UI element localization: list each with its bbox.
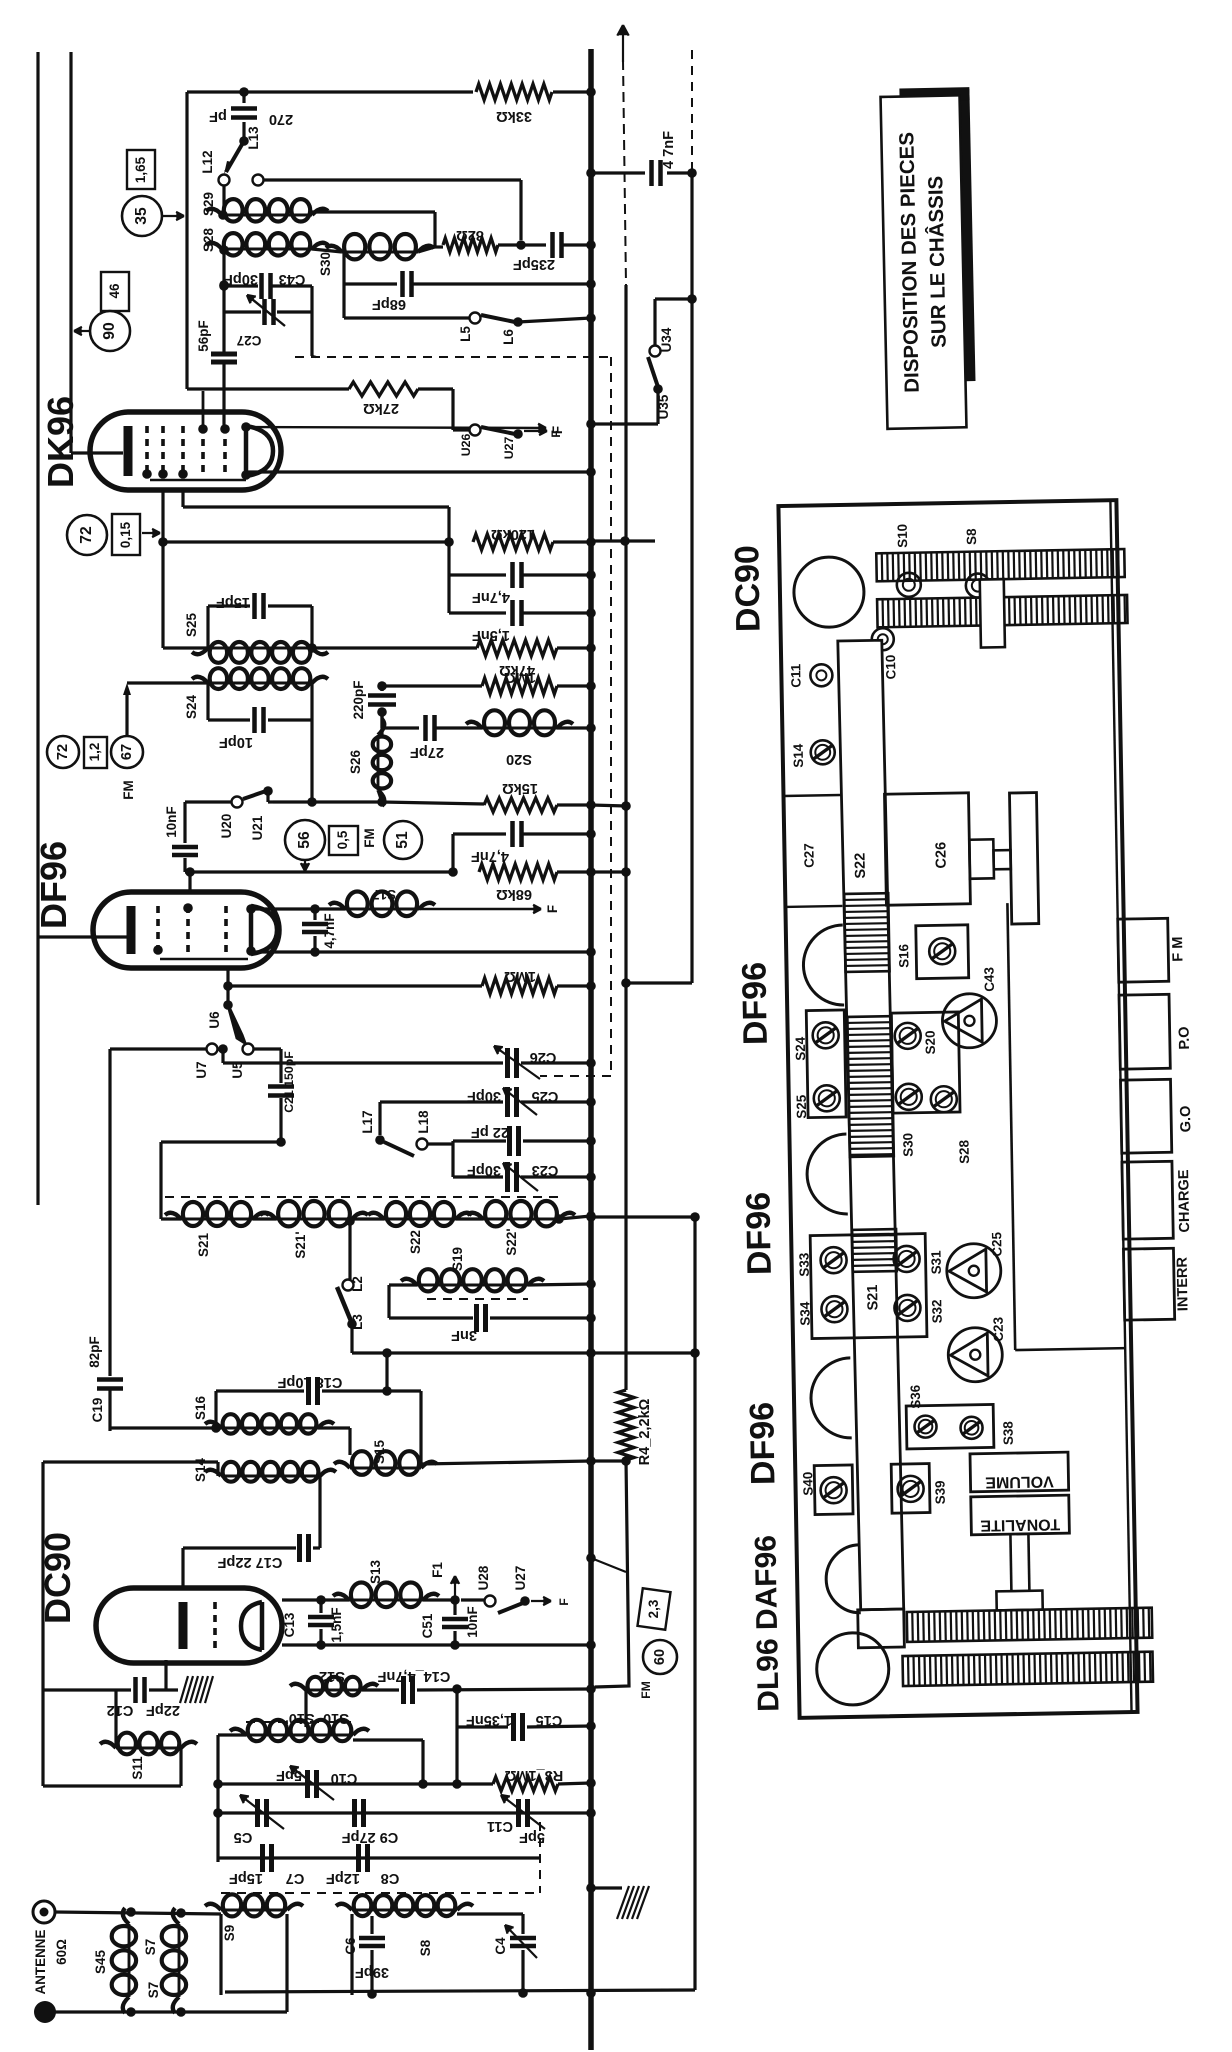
tube DF96 half (chassis 2) [806,1134,847,1215]
knob stem C26 [969,839,994,878]
box C26 [884,793,970,905]
wire left supply rail 2 [69,52,72,453]
svg-text:C11: C11 [788,663,803,688]
svg-text:R3_1MΩ: R3_1MΩ [504,1767,563,1783]
wire S28 left down [222,250,225,285]
svg-text:S32: S32 [929,1299,944,1323]
svg-text:S13: S13 [368,1560,383,1584]
tab PO [1119,994,1170,1069]
svg-text:S9: S9 [222,1925,237,1941]
divider line 1 [783,794,840,797]
terminal 35 [122,196,162,236]
coil S28 [222,248,312,251]
gang coupler [980,579,1005,647]
svg-text:S7: S7 [143,1939,158,1955]
dashed gang-link line [295,356,611,358]
coil S25 with 15pF [163,646,208,649]
resistor R4 2,2k [618,1390,634,1460]
svg-text:S21: S21 [196,1233,211,1257]
wire DC90 plate row [282,1598,321,1601]
resistor 15k [382,802,484,804]
svg-text:22 pF: 22 pF [471,1124,509,1140]
wire det row [273,800,382,803]
svg-text:VOLUME: VOLUME [985,1472,1054,1490]
screw box S20 S30 S28 [891,1012,960,1113]
svg-text:60Ω: 60Ω [54,1939,69,1965]
svg-text:1,65: 1,65 [133,156,148,183]
wire DF96 filament left [38,935,129,938]
svg-text:C19: C19 [90,1398,105,1423]
wire DF96 plate row [251,907,345,910]
svg-text:120kΩ: 120kΩ [491,526,535,542]
tube DC90 [96,1588,282,1663]
svg-text:235pF: 235pF [513,256,555,272]
svg-text:C17 22pF: C17 22pF [218,1554,283,1570]
resistor R3 1M [493,1777,558,1791]
svg-text:S22: S22 [408,1230,423,1254]
trimmer C5 [255,1799,260,1827]
capacitor 235pF [498,243,546,246]
svg-text:C10: C10 [883,655,898,680]
svg-text:DF96: DF96 [743,1402,782,1486]
svg-text:L12: L12 [200,150,215,173]
arrow 35 to box edge [163,215,184,217]
capacitor C8 12pF [356,1844,361,1872]
svg-text:C23: C23 [991,1317,1006,1342]
wire S24 left to FM terminals [127,681,208,684]
svg-text:G.O: G.O [1178,1106,1194,1133]
trimmer C11 5pF [516,1799,521,1827]
svg-text:C12: C12 [107,1702,134,1718]
svg-text:S29: S29 [201,192,216,216]
svg-text:DF96: DF96 [739,1192,778,1276]
svg-text:5pF: 5pF [519,1829,545,1845]
screw S40 [814,1465,853,1515]
wire AVC line (mid vertical) [624,285,627,1390]
svg-text:INTERR: INTERR [1175,1256,1192,1311]
coil S22b [456,1217,483,1220]
svg-text:S16: S16 [896,944,911,968]
wire C26 row [221,1049,224,1063]
svg-text:S28: S28 [957,1139,972,1164]
chassis outline [778,500,1137,1718]
svg-text:U28: U28 [476,1565,491,1590]
wire U34 U35 switch net [655,297,692,300]
capacitor C13 1,5nF [319,1600,322,1613]
switch contact L14 [253,175,264,186]
wire trimmer row [218,1811,591,1814]
svg-text:46: 46 [107,284,122,299]
svg-text:S24: S24 [793,1036,808,1061]
svg-text:S19: S19 [450,1247,465,1271]
dashed line over coil row [165,1196,559,1198]
resistor 68k [479,864,557,880]
svg-text:S10: S10 [895,524,910,548]
svg-text:4,7nF: 4,7nF [472,589,510,605]
svg-text:F: F [549,430,563,438]
svg-text:U7: U7 [194,1061,209,1078]
box TONALITE [971,1495,1070,1535]
svg-text:82Ω: 82Ω [456,227,484,243]
wire DK96 g1 down [161,490,164,648]
title box [881,95,967,429]
tab FM [1118,918,1169,982]
resistor 27k with switch U26 U27 [187,387,349,390]
coil S17 [345,908,419,911]
svg-text:F: F [557,1598,571,1606]
arrow 90 to left rail [74,330,89,332]
svg-text:S14: S14 [193,1458,208,1482]
svg-text:S8: S8 [418,1939,433,1956]
svg-text:15pF: 15pF [229,1870,263,1886]
svg-text:S36: S36 [908,1385,923,1409]
svg-text:S24: S24 [184,695,199,719]
svg-text:DC90: DC90 [37,1532,78,1624]
wire DF96 pin row to bus [251,950,591,953]
volume shaft [1009,1534,1013,1591]
svg-text:72: 72 [78,526,95,544]
coil S15 [318,1426,350,1429]
ground symbol [617,1886,629,1919]
capacitor C9 27pF [352,1799,357,1827]
svg-text:C26: C26 [933,842,949,869]
svg-text:72: 72 [55,744,71,760]
svg-text:0,5: 0,5 [335,830,350,849]
terminal 67 [111,736,143,768]
svg-text:270: 270 [269,111,293,127]
svg-text:S14: S14 [791,743,806,768]
wire below R4 [595,1460,629,1687]
svg-text:C14_4,7nF: C14_4,7nF [378,1668,451,1684]
svg-text:FM: FM [362,828,377,847]
resistor 33k [476,84,552,100]
inner partition [1007,903,1015,1350]
strip hatch 2 [847,1016,893,1157]
svg-text:U21: U21 [250,815,265,840]
capacitor 4,7nF (top right) [591,171,645,174]
svg-text:L13: L13 [246,126,261,149]
capacitor C18 10pF [216,1389,304,1392]
svg-text:C26: C26 [530,1049,557,1065]
wire DK96 g2 down [181,490,184,507]
screw box S36 S38 [906,1404,994,1449]
svg-text:S15: S15 [372,1440,387,1464]
svg-text:60: 60 [652,1649,668,1665]
svg-text:C21 150pF: C21 150pF [282,1051,296,1113]
wire DF96 grid stub [188,872,191,892]
arrow F1 [454,1576,456,1600]
terminal 60 [643,1640,677,1674]
coil S29 [222,186,225,210]
coil S24 with 10pF [208,682,312,685]
svg-text:C8: C8 [381,1870,400,1886]
coil S26 [377,735,380,790]
svg-text:S20: S20 [506,751,532,767]
coil S21 [181,1218,253,1221]
dial pointer strip [838,640,904,1610]
trimmer C26 [505,1048,510,1078]
capacitor 68pF [342,252,345,318]
trimmer C23 30pF [451,1141,454,1177]
capacitor C6 39pF [370,1916,373,1934]
tube DL96 half (chassis) [826,1545,861,1614]
svg-text:U34: U34 [659,327,674,352]
svg-text:S28: S28 [201,228,216,252]
wire top rail [187,90,473,93]
svg-text:15pF: 15pF [216,594,250,610]
bottom gang bar 1 [907,1608,1152,1642]
svg-text:F1: F1 [430,1562,445,1578]
wire stub rail to AVC [626,981,692,984]
svg-text:F: F [545,905,560,913]
svg-text:0,15: 0,15 [118,521,133,548]
switch U20 U21 [185,800,231,803]
tuning gang bar 1 [876,549,1124,581]
svg-text:C15: C15 [536,1712,563,1728]
svg-text:F M: F M [1170,936,1186,961]
svg-text:CHARGE: CHARGE [1176,1169,1193,1233]
capacitor C14 4,7nF [362,1688,399,1691]
trimmer C25 30pF [380,1100,503,1103]
svg-text:S12: S12 [319,1668,345,1684]
svg-text:FM: FM [121,780,136,799]
svg-text:L5: L5 [458,326,473,342]
svg-text:S17: S17 [372,887,396,902]
capacitor 4,7nF (IF) [451,834,454,872]
svg-text:DK96: DK96 [40,396,81,488]
box 2,3 with FM 60 [591,1558,626,1572]
box 0,15 [112,514,140,555]
antenna terminal top [33,1901,55,1923]
terminal 51 [384,821,422,859]
capacitor 3nF [389,1316,473,1319]
svg-text:S22': S22' [504,1228,519,1255]
svg-text:L17: L17 [360,1110,375,1133]
terminal 72 (DK96) [67,515,107,555]
svg-text:67: 67 [119,744,135,760]
svg-text:U27: U27 [502,437,516,460]
knob C43 [942,993,997,1048]
svg-text:S25: S25 [184,613,199,637]
svg-text:10nF: 10nF [164,806,179,837]
capacitor 4,7nF [447,542,450,575]
coil S21b [253,1217,276,1220]
capacitor 27pF to S20 [380,712,383,728]
svg-text:4 7nF: 4 7nF [661,131,677,169]
switch L2 L3 [345,1216,355,1226]
svg-text:22pF: 22pF [146,1702,180,1718]
svg-text:S31: S31 [928,1250,943,1275]
coil S20 [482,727,557,730]
svg-text:33kΩ: 33kΩ [496,108,532,124]
box VOLUME [970,1452,1069,1492]
resistor 120k [473,534,553,550]
svg-text:5pF: 5pF [276,1767,302,1783]
wire filament to left rail [71,451,123,454]
bottom gang coupler [996,1591,1042,1611]
svg-text:DL96 DAF96: DL96 DAF96 [749,1535,785,1712]
dashed link to band switch [539,1822,541,1893]
screw S8 (gang) [966,573,990,597]
svg-text:C10: C10 [331,1770,358,1786]
screw S39 [891,1464,930,1514]
switch L17 L18 [375,1135,385,1145]
capacitor 220pF [380,686,383,691]
svg-text:S8: S8 [964,528,979,545]
core hatch block [180,1676,188,1703]
coil S13 [321,1598,349,1601]
svg-text:C43: C43 [982,967,997,992]
svg-text:C25: C25 [989,1231,1004,1256]
wire dash-dot line with arrow (top) [622,25,624,62]
resistor 47k [312,646,477,649]
svg-text:S10': S10' [285,1710,314,1726]
terminal 90 [90,311,130,351]
coil S19 [389,1283,417,1286]
svg-text:68pF: 68pF [372,296,406,312]
switch L12 L13 [239,136,249,146]
wire antenna return rail [54,2010,287,2013]
title box shadow [954,89,975,381]
wire S17 to F [419,908,541,910]
wire DK96 plate to F [246,427,546,428]
svg-text:C11: C11 [487,1818,513,1834]
svg-text:S34: S34 [797,1301,812,1326]
screw box S24 S25 [806,1010,846,1118]
switch L5 L6 [344,316,469,319]
svg-text:S30: S30 [900,1133,915,1157]
trimmer C10 5pF [305,1770,310,1798]
svg-text:C51: C51 [420,1613,435,1638]
switch U6 [226,968,229,1003]
coil S8 [352,1909,457,1912]
wire bus to rail stub 2 [352,1351,695,1354]
svg-text:L6: L6 [501,329,516,345]
arrow 56 down [304,861,306,871]
svg-text:1,5nF: 1,5nF [329,1607,344,1642]
wire oscillator box edge [185,92,188,389]
tube DAF96 (chassis) [816,1632,889,1705]
svg-text:S20: S20 [923,1030,938,1054]
capacitor 22pF [453,1139,506,1142]
wire antenna top [55,1912,221,1914]
wire DC90 cathode row to bus [282,1643,591,1646]
capacitor C19 82pF [97,1377,123,1382]
svg-text:30pF: 30pF [224,271,258,287]
svg-text:220pF: 220pF [351,681,366,720]
wire RF row R3 [218,1782,493,1785]
trimmer C10 (chassis) [872,628,894,650]
svg-text:4,7nF: 4,7nF [471,848,509,864]
svg-text:35: 35 [133,207,150,225]
svg-text:P.O: P.O [1177,1026,1193,1049]
wire coil row left [161,1140,281,1143]
capacitor C17 22pF [318,1476,321,1548]
svg-text:C13: C13 [282,1613,297,1638]
svg-text:L2: L2 [350,1276,365,1292]
svg-text:C7: C7 [286,1870,305,1886]
ground stub [591,1886,622,1889]
capacitor C4 (trimmer) [457,1912,523,1915]
box S16 (chassis) [916,925,969,979]
svg-text:S22: S22 [852,853,868,879]
wire S29 to 82ohm node [312,210,435,213]
svg-text:DF96: DF96 [735,962,774,1046]
svg-text:51: 51 [394,831,411,849]
trimmer C11 (chassis) [810,664,832,686]
capacitor 4,7nF (plate) [313,909,316,920]
svg-text:S30: S30 [318,252,333,276]
svg-text:56pF: 56pF [196,320,211,351]
svg-text:90: 90 [101,322,118,340]
svg-text:C9 27pF: C9 27pF [342,1829,399,1845]
svg-text:10nF: 10nF [465,1606,480,1637]
capacitor C21 150pF [268,1084,294,1089]
capacitor C51 10nF [453,1600,456,1615]
wire cap row C7 C8 [218,1856,540,1859]
svg-text:1MΩ: 1MΩ [504,669,536,685]
svg-text:S21': S21' [293,1231,308,1258]
svg-text:R4_2,2kΩ: R4_2,2kΩ [637,1398,653,1465]
trimmer C27 [224,310,261,313]
capacitor C43 30pF [224,284,258,287]
svg-text:S26: S26 [348,750,363,774]
wire DK96 pin to bus [246,470,591,473]
svg-text:SUR LE CHÂSSIS: SUR LE CHÂSSIS [923,176,951,348]
svg-text:30pF: 30pF [467,1088,501,1104]
wire right rail upper [690,173,693,983]
svg-text:S7: S7 [146,1982,161,1998]
tab CHARGE [1122,1161,1173,1239]
coil S10 [246,1721,353,1723]
svg-text:10pF: 10pF [219,734,253,750]
antenna terminal bottom [34,2001,56,2023]
box 46 [101,272,129,311]
arrow 0,15 to grid line [142,532,160,534]
divider line 2 [785,905,842,908]
capacitor C7 15pF [260,1844,265,1872]
capacitor 1,5nF [447,575,450,613]
svg-text:L18: L18 [416,1110,431,1134]
svg-text:C6: C6 [343,1937,358,1954]
tube DF96 half (chassis 1) [803,925,844,1006]
svg-text:S10: S10 [323,1710,349,1726]
tube DF96 half (chassis 3) [810,1358,851,1439]
svg-text:S39: S39 [932,1480,947,1504]
screw S10 (gang) [897,573,921,597]
wire DC90 grid to C12 [164,1660,167,1690]
strip hatch 3 [852,1229,897,1272]
capacitor C15 1,35nF [455,1689,458,1784]
svg-text:1MΩ: 1MΩ [504,968,536,984]
svg-text:39pF: 39pF [355,1964,389,1980]
svg-text:1,2: 1,2 [87,743,102,762]
svg-text:C27: C27 [801,843,816,868]
svg-text:C4: C4 [493,1937,508,1955]
tube DK96 [90,412,281,490]
svg-text:27pF: 27pF [410,744,444,760]
wire right rail (dashed top) [691,50,693,173]
knob C23 [948,1327,1003,1382]
resistor 1M (osc) [382,684,482,687]
coil S30 [312,249,342,252]
svg-text:FM: FM [639,1681,653,1699]
svg-text:27kΩ: 27kΩ [363,400,399,416]
svg-text:30pF: 30pF [467,1162,501,1178]
wire S15 row to bus [421,1461,591,1464]
svg-text:C23: C23 [532,1162,559,1178]
wire g2 row crossing bus [591,539,655,542]
